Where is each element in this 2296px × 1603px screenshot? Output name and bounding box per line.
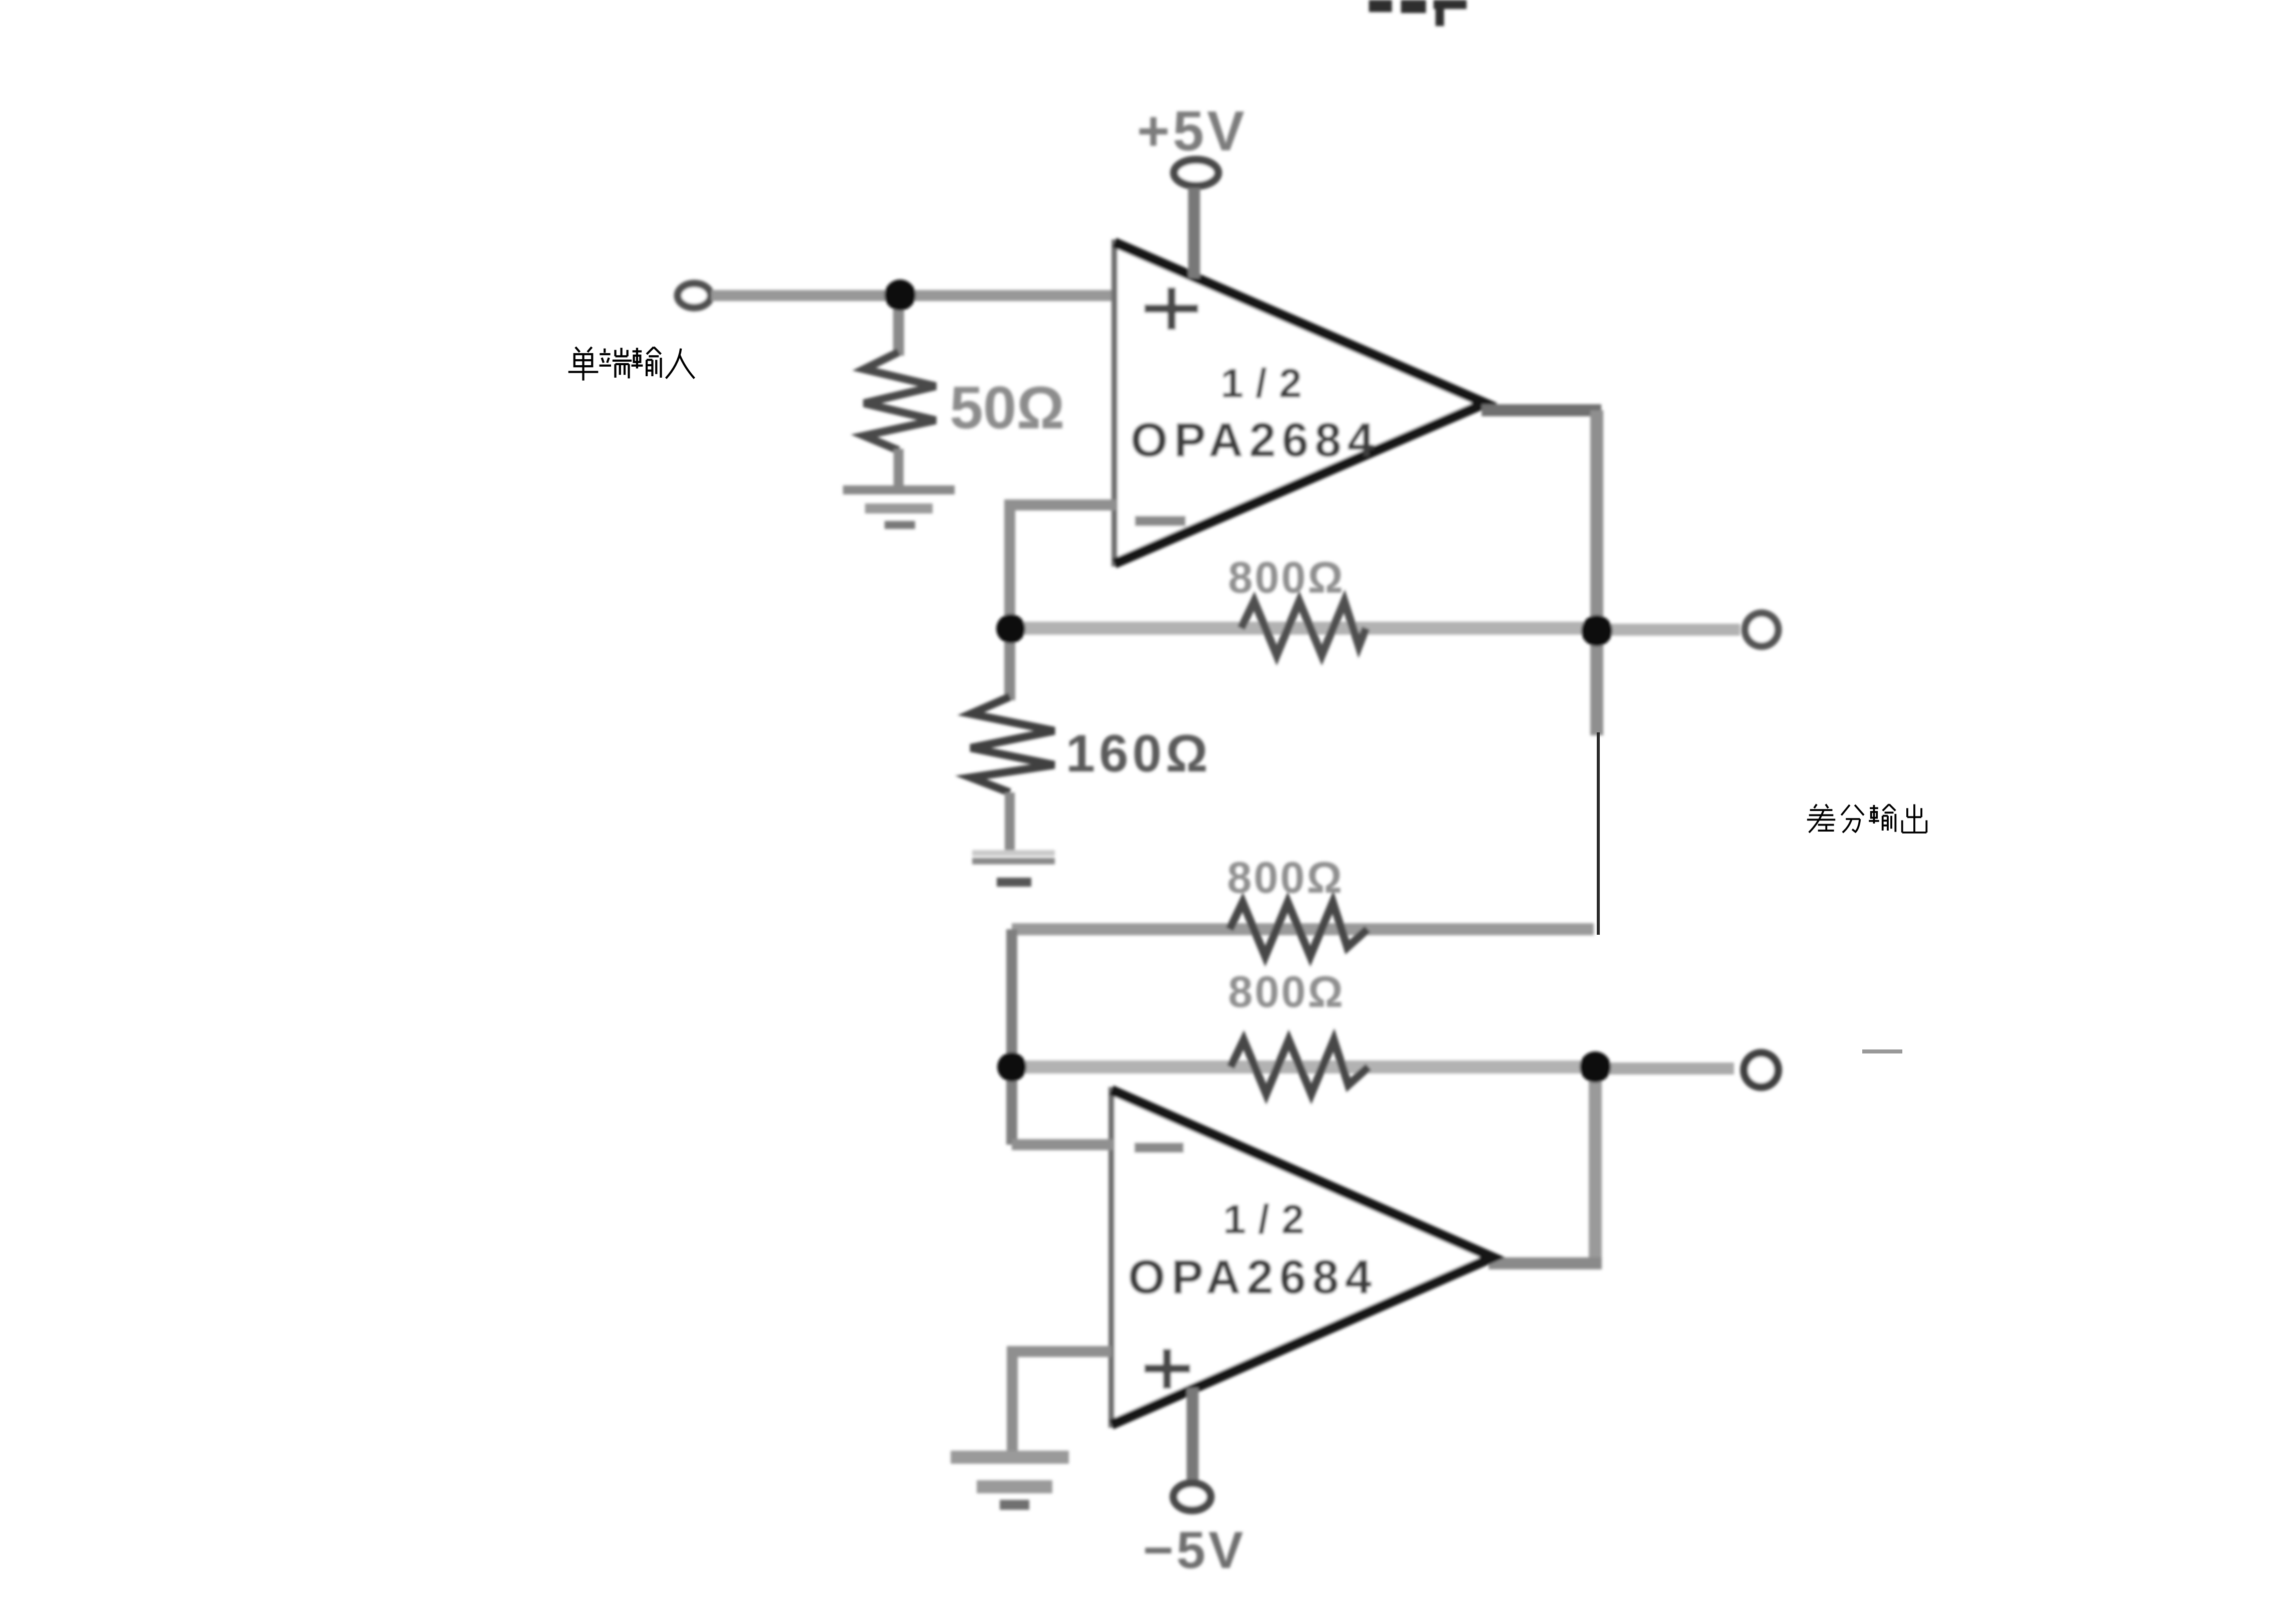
- glyph 单: [568, 347, 599, 381]
- input terminal J1: [678, 284, 711, 308]
- wire node C to output terminal 1: [1597, 624, 1740, 636]
- wire node E down to U1B output: [1589, 1067, 1602, 1263]
- glyph 差: [1807, 805, 1835, 833]
- U1B plus input symbol: [1144, 1349, 1190, 1389]
- -5V terminal: [1174, 1483, 1211, 1510]
- resistor R2 800Ω zigzag: [1241, 601, 1366, 655]
- label 差分输出 (differential output), hand-drawn glyphs: [1807, 805, 1926, 834]
- glyph 端: [600, 348, 632, 378]
- wire U1B noninverting input to ground: [1012, 1352, 1111, 1453]
- svg-text:+5V: +5V: [1137, 100, 1247, 162]
- glyph 分: [1841, 805, 1864, 833]
- wire R1 to ground G1: [894, 449, 904, 487]
- op-amp U1A body: [1114, 239, 1485, 567]
- node D junction: [997, 1052, 1026, 1082]
- cropped text fragment at top edge: [1369, 0, 1467, 26]
- glyph 出: [1902, 805, 1927, 834]
- U1A minus input symbol: [1135, 516, 1186, 526]
- glyph 输: [1869, 805, 1895, 832]
- svg-text:−5V: −5V: [1143, 1521, 1246, 1579]
- node A junction: [885, 280, 916, 311]
- node E junction: [1580, 1051, 1611, 1083]
- svg-text:1/2: 1/2: [1221, 361, 1314, 406]
- svg-text:50Ω: 50Ω: [950, 374, 1065, 441]
- wire input to noninverting input: [711, 290, 1115, 301]
- node C junction: [1581, 615, 1612, 646]
- wire +5V to U1A power pin: [1188, 188, 1200, 279]
- svg-text:800Ω: 800Ω: [1227, 853, 1344, 902]
- wire node E to output terminal 2: [1595, 1062, 1734, 1075]
- artifact dash right of VO2: [1862, 1049, 1902, 1053]
- wire R4 to ground G2: [1005, 792, 1015, 851]
- svg-text:OPA2684: OPA2684: [1128, 1250, 1377, 1304]
- wire feedback row 2: [1012, 923, 1594, 935]
- resistor R5 800Ω zigzag: [1231, 1040, 1368, 1094]
- wire node A down to R1: [893, 295, 904, 356]
- resistor R3 800Ω zigzag: [1230, 902, 1367, 956]
- wire U1A output: [1482, 410, 1601, 623]
- ground G3: [951, 1457, 1069, 1505]
- wire thin link down to row 2 (crisp overlay): [1597, 732, 1600, 935]
- U1B minus input symbol: [1134, 1143, 1184, 1153]
- wire node C down: [1590, 631, 1603, 735]
- wire left bus node B2 down to U1B inverting: [1006, 929, 1017, 1145]
- U1A plus input symbol: [1144, 288, 1198, 330]
- svg-text:800Ω: 800Ω: [1228, 553, 1345, 602]
- wire feedback row 3: [1012, 1060, 1595, 1074]
- +5V terminal: [1174, 160, 1218, 186]
- resistor R4 160Ω zigzag: [971, 697, 1054, 792]
- node B junction: [996, 614, 1025, 643]
- glyph 输: [632, 347, 661, 378]
- wire U1A inverting input: [1010, 505, 1116, 629]
- glyph 入: [666, 349, 695, 379]
- wire node B down to R4: [1004, 629, 1015, 700]
- ground G2: [972, 853, 1055, 882]
- output terminal VO2: [1744, 1053, 1778, 1087]
- label 单端输入 (single-ended input), hand-drawn glyphs: [568, 347, 695, 381]
- svg-text:800Ω: 800Ω: [1228, 967, 1345, 1016]
- wire U1B output: [1489, 1257, 1602, 1269]
- svg-text:160Ω: 160Ω: [1066, 724, 1212, 783]
- output terminal VO1: [1745, 613, 1778, 646]
- wire feedback row 1: [1011, 622, 1597, 635]
- svg-text:OPA2684: OPA2684: [1130, 413, 1380, 467]
- wire U1B inverting input: [1012, 1139, 1113, 1150]
- svg-text:1/2: 1/2: [1223, 1197, 1316, 1242]
- resistor R1 50Ω zigzag: [864, 352, 936, 450]
- op-amp U1B body: [1111, 1087, 1493, 1428]
- ground G1: [843, 490, 955, 525]
- wire U1B power pin to -5V: [1187, 1388, 1199, 1480]
